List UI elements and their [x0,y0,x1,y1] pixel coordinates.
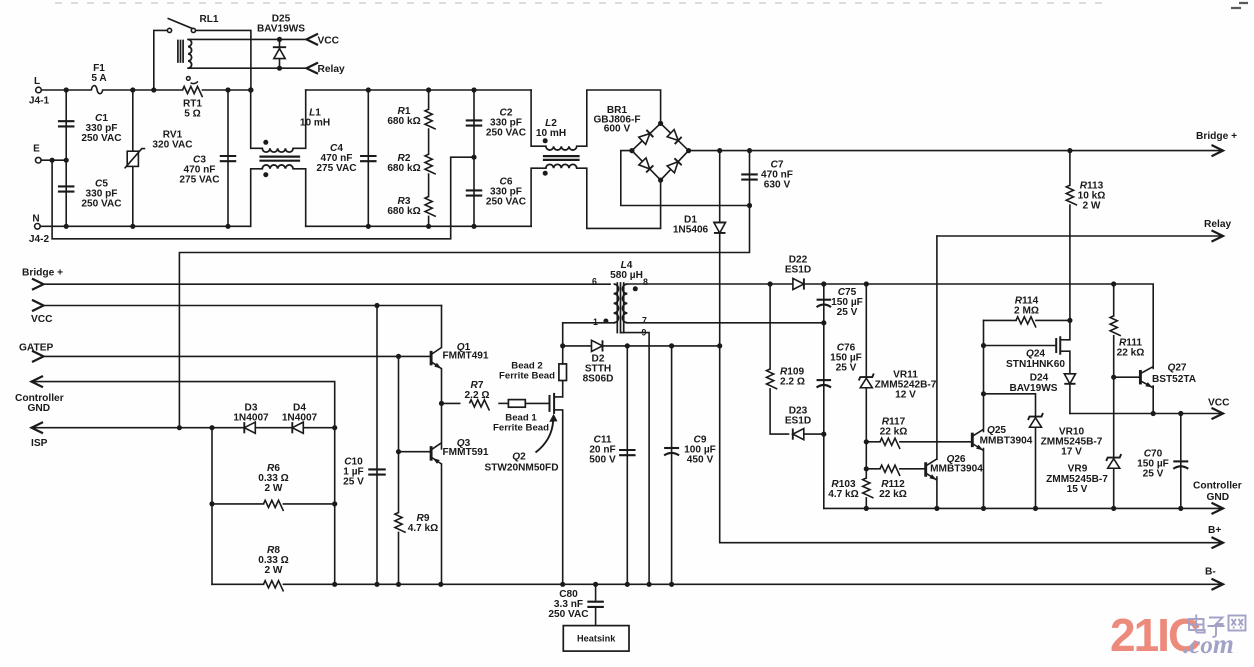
resistor R103 [861,479,871,497]
svg-text:L: L [34,76,40,87]
wire R6 line [212,503,335,505]
bridge left vertex [629,148,634,153]
wire Q24 gate line [984,345,1057,347]
ferrite bead 1 [508,400,525,408]
arrow B- right [1212,579,1224,590]
choke L2 core [544,155,579,157]
fuse F1 [91,86,102,94]
junction C11 top [625,343,630,348]
wire top rail L1-L2 [306,89,531,91]
capacitor C5 [58,185,74,187]
wire L1 top-left lead [251,90,263,148]
terminal E [36,157,42,163]
svg-text:Bridge +: Bridge + [1196,131,1237,142]
svg-text:MMBT3904: MMBT3904 [930,464,983,475]
junction C70 top [1178,411,1183,416]
junction D25 anode [277,66,282,71]
svg-text:FMMT491: FMMT491 [443,351,489,362]
junction C4 bottom [366,224,371,229]
wire C80 to heatsink [595,609,597,626]
svg-text:VCC: VCC [31,314,53,325]
junction C70 GND [1178,506,1183,511]
L4 core [616,283,618,333]
wire C11 vertical [626,346,628,584]
capacitor C6 [466,189,483,191]
junction R117 left [864,439,869,444]
svg-text:Q2: Q2 [512,452,526,463]
wire C75-C76 vertical [823,284,825,508]
wire C3 vertical [227,90,229,226]
junction R7 node [439,401,444,406]
relay switch blade [168,19,191,29]
wire Controller GND rail [824,507,1223,509]
wire L4 pin8 / VCC-aux line [627,284,1153,369]
capacitor C3 [220,155,237,157]
wire VR10 line [984,394,1036,509]
svg-text:1: 1 [593,317,598,327]
wire C80 lead [595,584,597,600]
scan artifact top-right mark [1231,3,1248,8]
svg-text:BST52TA: BST52TA [1152,374,1197,385]
wire Bridge+ line [44,283,611,285]
wire R109 vertical [770,284,788,434]
junction Q2 source B- [560,582,565,587]
svg-text:D24: D24 [1030,373,1049,384]
wire bead2 up [562,346,564,364]
junction B- shunt [332,582,337,587]
junction C4 top [366,87,371,92]
svg-text:ISP: ISP [31,438,48,449]
diode D3 [244,422,255,433]
junction earth branch [50,158,55,163]
arrow Relay right [1212,230,1224,241]
arrow B+ right [1212,537,1224,548]
wire R114 line [984,319,1070,321]
resistor R1 [424,110,434,128]
svg-text:D23ES1D: D23ES1D [785,406,811,427]
junction C7 bottom [747,203,752,208]
wire bead1 to gate [525,402,549,404]
wire VR11 vertical [865,284,867,508]
wire bridge DC- path [621,151,750,206]
capacitor C70 [1173,460,1188,462]
wire C5 vertical [65,160,67,226]
arrow VCC left [32,300,44,311]
diode D2 [592,340,603,351]
resistor R111 [1109,317,1119,335]
relay coil core [177,41,179,63]
junction VR9 GND [1111,506,1116,511]
wire R117 line [866,441,972,443]
transistor Q3 [430,446,433,461]
svg-text:Relay: Relay [1204,219,1232,230]
svg-text:STW20NM50FD: STW20NM50FD [484,463,558,474]
resistor R114 [1017,315,1035,325]
junction C1-top [64,87,69,92]
junction C3-bottom [225,224,230,229]
transistor Q1 [430,351,433,366]
L4 right winding [623,284,628,323]
wire Relay vertical [936,236,938,459]
junction C2-C6 mid [471,155,476,160]
mosfet Q2 [549,395,551,412]
junction Q3 emitter B- [438,582,443,587]
wire R113 vertical [1069,151,1071,321]
junction Q24 gate node [981,343,986,348]
wire DC- to ISP sense line [179,206,749,428]
L4 phasing dot pin1 [603,319,608,324]
junction C11 bottom [625,582,630,587]
diode D22 [793,278,804,289]
wire C70 vertical [1180,414,1182,509]
junction Q3 base [396,449,401,454]
junction D1 top [717,148,722,153]
wire N rail [40,225,251,227]
junction C5-bottom [64,224,69,229]
L4 left winding [614,284,619,323]
svg-text:Relay: Relay [318,64,346,75]
svg-text:N: N [32,214,39,225]
arrow Controller GND left [32,376,44,387]
arrow Controller GND right [1212,503,1224,514]
wire B- rail [335,583,1223,585]
junction C75 top [821,281,826,286]
svg-text:R1142 MΩ: R1142 MΩ [1014,296,1039,317]
junction D25 cathode [277,37,282,42]
zener VR10 [1030,418,1042,428]
L1 phasing dot top [263,140,268,145]
svg-text:R11122 kΩ: R11122 kΩ [1117,338,1145,359]
wire Q1 collector [441,306,443,348]
arrow Relay top [307,63,319,74]
arrow VCC right [1212,408,1224,419]
capacitor C80 [587,601,604,603]
wire Q2 source [562,410,564,584]
ferrite bead 2 [559,364,567,381]
junction R1 top [426,87,431,92]
wire D25 vertical [279,39,281,68]
wire C1 vertical [65,90,67,160]
wire D24 to VCC line [1069,385,1071,414]
junction R3 bottom [426,224,431,229]
junction C9 bottom [669,582,674,587]
wire Q26 emitter [936,477,938,508]
wire C4 vertical [367,90,369,226]
resistor R109 [765,370,775,388]
transistor Q26 [924,462,927,477]
arrow VCC top [307,34,319,45]
wire coil to VCC [188,38,306,40]
wire L2 top-left lead [531,90,546,146]
svg-text:D22ES1D: D22ES1D [785,255,811,276]
svg-text:8: 8 [643,277,648,287]
svg-text:FMMT591: FMMT591 [443,447,489,458]
wire N rail L1-L2 [306,225,531,227]
junction C10 bottom [374,582,379,587]
svg-text:7: 7 [642,316,647,326]
wire Q3 base lead [399,451,432,453]
wire R9/Q3 base vertical [398,356,400,584]
relay switch contact left [167,28,171,32]
arrow ISP [32,422,44,433]
capacitor C76 [817,379,832,381]
junction VR10 GND [1033,506,1038,511]
svg-text:R11222 kΩ: R11222 kΩ [879,479,907,500]
wire R112 line [866,468,925,470]
wire R7 to bead1 [499,402,508,404]
wire E to C1/C5 [41,159,66,161]
capacitor C9 [664,447,679,449]
wire L2 bottom-right lead [577,168,661,228]
junction R103 GND [864,506,869,511]
wire shunt right vertical [334,428,336,585]
junction C9 top [669,343,674,348]
wire coil to Relay [188,67,306,69]
diode D25 [274,49,285,59]
wire C2-C6 vertical [473,90,475,226]
junction R109 top [768,281,773,286]
diode D4 [292,422,303,433]
wire R8 line [212,583,335,585]
capacitor C7 [741,173,758,175]
wire D2 output line [563,345,720,347]
mosfet Q24 [1055,338,1057,353]
resistor R8 [264,579,282,589]
svg-text:B+: B+ [1208,525,1221,536]
wire L4 pin7 lead [627,322,823,324]
resistor R3 [424,197,434,215]
wire D1 vertical [719,151,721,346]
wire L rail [41,89,91,91]
diode D1 [714,222,726,233]
svg-text:VR9: VR9 [1068,464,1088,475]
svg-text:R11722 kΩ: R11722 kΩ [880,417,908,438]
bridge diamond [632,123,689,180]
choke L1 bottom winding [262,165,293,169]
junction RT1 right [248,87,253,92]
varistor RV1 [127,151,138,166]
wire switch left leg [154,30,167,90]
resistor R2 [424,155,434,173]
resistor R117 [881,437,899,447]
wire L rail after fuse [103,89,251,91]
relay coil winding [188,39,192,68]
wire VCC out line [1070,413,1223,415]
transistor Q27 [1139,370,1142,385]
arrow Bridge+ left [32,279,44,290]
junction C1-C5 [64,158,69,163]
bridge bottom vertex [658,178,663,183]
L1 phasing dot bottom [263,172,268,177]
thermistor RT1 [183,85,201,95]
wire L4 pin9 lead [621,333,650,585]
svg-text:R1092.2 Ω: R1092.2 Ω [780,367,805,388]
wire Q24 source [1068,351,1070,372]
zener VR11 [860,378,872,388]
svg-text:Heatsink: Heatsink [577,634,616,644]
junction ISP shunt right [332,425,337,430]
wire C10 vertical [376,306,378,585]
diode D24 [1064,374,1075,384]
wire Q2 drain [562,381,564,398]
junction R6 left [209,501,214,506]
resistor R6 [264,499,282,509]
junction Q25 emitter GND [981,506,986,511]
resistor R9 [393,513,403,531]
wire Q3 emitter down [441,464,443,584]
capacitor C10 [368,468,386,470]
diode D23 [793,429,804,440]
wire L1 bottom-left lead [251,169,263,227]
wire Q25 collector [983,320,985,431]
terminal J4-2 N [35,224,41,230]
arrow Bridge+ right [1212,145,1224,156]
svg-text:BAV19WS: BAV19WS [1009,383,1057,394]
wire R chain [428,90,430,226]
resistor R113 [1065,186,1075,204]
bridge top vertex [658,121,663,126]
wire R111-VR9 vertical [1113,284,1115,508]
L2 phasing dot top [543,138,548,143]
wire earth down and across [52,157,474,239]
bridge diode bottom-left [639,158,653,172]
junction GATEP branch [396,354,401,359]
junction Q27 base [1111,375,1116,380]
wire Relay line [937,235,1223,237]
resistor R112 [881,464,899,474]
svg-text:MMBT3904: MMBT3904 [980,436,1033,447]
junction R6 right [332,501,337,506]
junction C76 bottom [821,432,826,437]
capacitor C4 [360,155,377,157]
capacitor C1 [58,120,74,122]
capacitor C11 [619,449,636,451]
junction B+ node [717,343,722,348]
junction VR10 node [981,391,986,396]
junction L1 top-left [248,87,253,92]
capacitor C2 [466,119,483,121]
resistor R7 [470,398,488,408]
terminal J4-1 L [36,87,42,93]
L2 phasing dot bottom [543,171,548,176]
junction L4 pin9 B- [647,582,652,587]
svg-text:B-: B- [1205,567,1216,578]
svg-text:J4-1: J4-1 [29,96,50,107]
junction C6 bottom [471,224,476,229]
wire L1 top-right lead [293,90,306,148]
wire R7 line [442,402,460,404]
junction relay-switch branch [151,87,156,92]
svg-text:.com: .com [1183,629,1234,659]
svg-text:Q27: Q27 [1167,363,1186,374]
wire Q25 emitter [983,449,985,509]
junction Q26 emitter GND [934,506,939,511]
bridge right vertex [686,148,691,153]
capacitor C75 [817,299,832,301]
junction R9 bottom [396,582,401,587]
wire L4 pin1 lead [563,323,614,346]
junction C80 tap [593,582,598,587]
junction C7 top [747,148,752,153]
junction RV1-bottom [130,224,135,229]
junction R112 left [864,466,869,471]
junction R114-R113-Q24drain [1067,318,1072,323]
choke L2 top winding [546,146,577,150]
heatsink box [563,626,629,652]
junction C3-top [225,87,230,92]
wire switch right leg [196,30,251,90]
wire VCC line [44,305,442,307]
svg-text:R1034.7 kΩ: R1034.7 kΩ [828,479,859,500]
junction R111 top [1111,281,1116,286]
wire D23 to C76 [804,433,824,435]
wire ISP line [32,427,335,429]
thermistor mark [186,77,190,81]
junction Q2 drain node [560,343,565,348]
junction C10 top [374,303,379,308]
svg-text:STN1HNK60: STN1HNK60 [1006,359,1065,370]
wire C9 vertical [671,346,673,584]
transistor Q25 [971,433,974,448]
bridge diode top-left [639,130,654,144]
wire C7 vertical [749,151,751,206]
junction C2 top [471,87,476,92]
svg-text:E: E [33,144,40,155]
wire Bridge+ rail [689,150,1223,152]
arrow GATEP [32,351,44,362]
wire B+ vertical and line [720,346,1223,543]
junction VR11 top [864,281,869,286]
svg-text:J4-2: J4-2 [29,234,50,245]
bridge diode bottom-right [667,158,681,172]
svg-text:VCC: VCC [1208,398,1230,409]
relay switch contact right [191,28,195,32]
wire L2 top-right lead [577,90,661,146]
svg-text:Controller: Controller [1193,481,1242,492]
svg-text:6: 6 [592,277,597,287]
choke L1 core [261,156,300,158]
junction Q27 emitter VCC [1151,411,1156,416]
scan artifact top dashes [55,2,1105,4]
junction R113 top [1067,148,1072,153]
svg-text:GND: GND [28,403,51,414]
junction C75-C76 mid [821,320,826,325]
junction ISP shunt left [209,425,214,430]
wire RV1 vertical [132,90,134,226]
svg-text:Q25: Q25 [987,425,1006,436]
zener VR9 [1108,459,1120,469]
svg-text:C101 µF25 V: C101 µF25 V [343,457,364,488]
logo CJK dianziwang [1189,615,1246,638]
choke L2 bottom winding [546,164,577,168]
wire GATEP line [44,355,432,357]
wire Controller GND line [32,382,335,428]
bridge diode top-right [667,130,681,144]
junction ISP sense [177,425,182,430]
svg-text:RT15 Ω: RT15 Ω [183,99,202,120]
wire Q27 emitter [1152,386,1154,414]
wire L1 bottom-right lead [293,169,306,227]
svg-text:GND: GND [1207,492,1230,503]
svg-text:Bridge +: Bridge + [22,267,63,278]
wire Q1 emitter / Q3 collector [441,369,443,449]
wire Q27 base line [1114,376,1141,378]
wire shunt left vertical [211,428,213,585]
svg-text:Q24: Q24 [1026,349,1045,360]
wire Q24 drain [1068,320,1070,339]
Q2 pointer arrow [536,421,554,453]
L4 phasing dot pin8 [633,286,638,291]
